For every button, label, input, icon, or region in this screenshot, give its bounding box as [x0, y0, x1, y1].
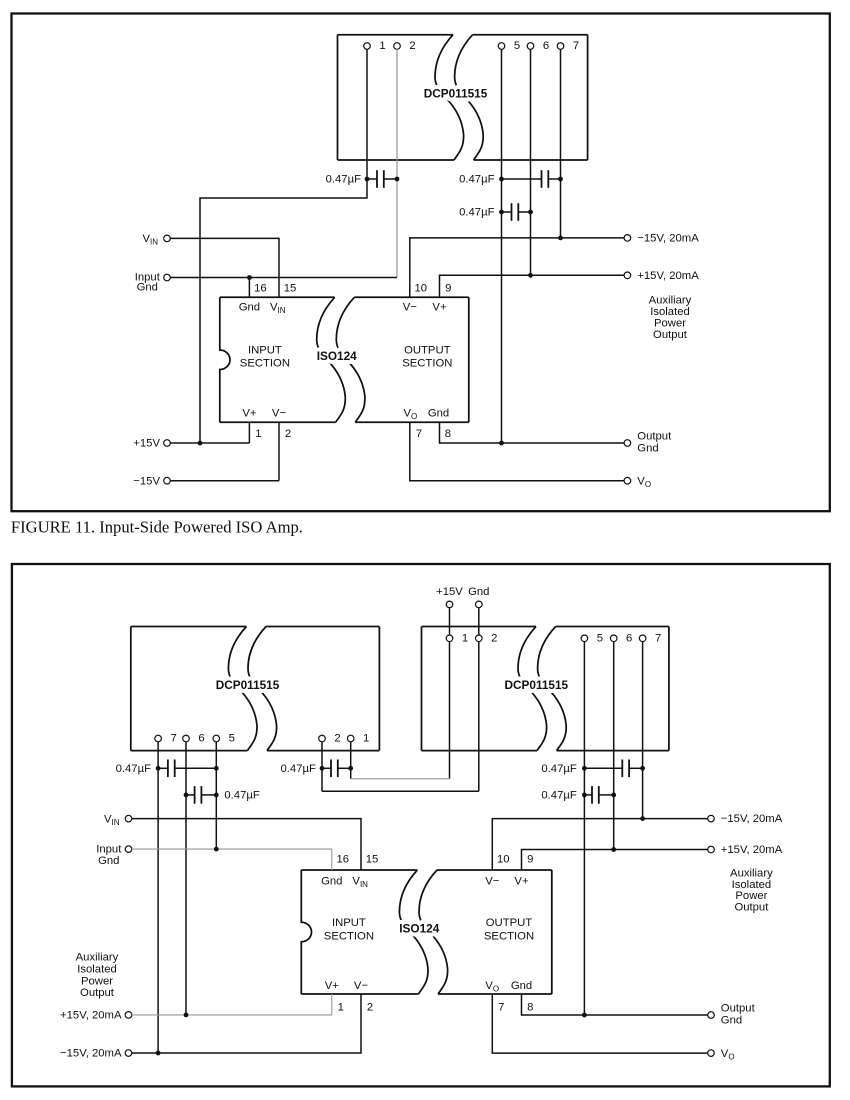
svg-text:1: 1	[379, 40, 385, 52]
svg-text:+15V, 20mA: +15V, 20mA	[637, 270, 699, 282]
svg-text:5: 5	[597, 632, 603, 644]
svg-text:SECTION: SECTION	[324, 931, 374, 943]
svg-text:2: 2	[367, 1002, 373, 1014]
svg-text:0.47µF: 0.47µF	[541, 790, 576, 802]
svg-text:Gnd: Gnd	[321, 875, 342, 887]
svg-text:1: 1	[338, 1002, 344, 1014]
svg-text:Output: Output	[80, 987, 115, 999]
svg-text:Isolated: Isolated	[650, 306, 690, 318]
svg-text:−15V, 20mA: −15V, 20mA	[637, 232, 699, 244]
svg-text:Auxiliary: Auxiliary	[76, 951, 119, 963]
svg-text:−15V, 20mA: −15V, 20mA	[721, 813, 783, 825]
svg-text:V−: V−	[485, 875, 500, 887]
svg-text:Auxiliary: Auxiliary	[649, 295, 692, 307]
svg-text:0.47µF: 0.47µF	[280, 763, 315, 775]
svg-text:Output: Output	[637, 431, 672, 443]
svg-text:DCP011515: DCP011515	[424, 87, 488, 101]
svg-text:2: 2	[491, 632, 497, 644]
svg-text:Auxiliary: Auxiliary	[730, 868, 773, 880]
svg-text:16: 16	[337, 853, 350, 865]
svg-text:8: 8	[445, 428, 451, 440]
svg-text:Power: Power	[81, 975, 113, 987]
svg-text:V+: V+	[432, 302, 447, 314]
svg-text:1: 1	[255, 428, 261, 440]
svg-text:Gnd: Gnd	[239, 302, 260, 314]
svg-text:2: 2	[285, 428, 291, 440]
svg-text:−15V: −15V	[133, 475, 160, 487]
svg-text:9: 9	[445, 282, 451, 294]
svg-text:15: 15	[366, 853, 379, 865]
svg-text:Gnd: Gnd	[511, 980, 532, 992]
svg-text:ISO124: ISO124	[399, 922, 439, 936]
svg-text:−15V, 20mA: −15V, 20mA	[60, 1048, 122, 1060]
svg-text:16: 16	[254, 282, 267, 294]
svg-text:6: 6	[626, 632, 632, 644]
svg-text:+15V, 20mA: +15V, 20mA	[721, 844, 783, 856]
svg-text:+15V: +15V	[133, 438, 160, 450]
svg-text:5: 5	[514, 40, 520, 52]
svg-text:Gnd: Gnd	[428, 408, 449, 420]
svg-text:7: 7	[498, 1002, 504, 1014]
svg-text:V+: V+	[514, 875, 529, 887]
svg-text:V−: V−	[354, 980, 369, 992]
svg-text:7: 7	[170, 733, 176, 745]
svg-text:Power: Power	[735, 890, 767, 902]
svg-text:5: 5	[229, 733, 235, 745]
svg-text:0.47µF: 0.47µF	[326, 174, 361, 186]
svg-text:2: 2	[334, 733, 340, 745]
svg-text:2: 2	[409, 40, 415, 52]
svg-text:Gnd: Gnd	[637, 443, 658, 455]
svg-text:10: 10	[497, 853, 510, 865]
svg-text:Output: Output	[734, 901, 769, 913]
svg-text:DCP011515: DCP011515	[216, 678, 280, 692]
svg-text:OUTPUT: OUTPUT	[404, 345, 451, 357]
svg-text:DCP011515: DCP011515	[504, 678, 568, 692]
svg-text:ISO124: ISO124	[317, 349, 357, 363]
svg-text:Gnd: Gnd	[137, 281, 158, 293]
svg-text:7: 7	[655, 632, 661, 644]
svg-text:15: 15	[284, 282, 297, 294]
svg-text:Output: Output	[721, 1003, 756, 1015]
svg-text:6: 6	[198, 733, 204, 745]
svg-text:INPUT: INPUT	[332, 917, 366, 929]
svg-text:0.47µF: 0.47µF	[224, 790, 259, 802]
svg-text:+15V, 20mA: +15V, 20mA	[60, 1010, 122, 1022]
svg-text:V−: V−	[272, 408, 287, 420]
svg-text:V+: V+	[325, 980, 340, 992]
svg-text:1: 1	[462, 632, 468, 644]
svg-text:FIGURE 11. Input-Side Powered: FIGURE 11. Input-Side Powered ISO Amp.	[11, 518, 303, 537]
svg-text:Gnd: Gnd	[98, 855, 119, 867]
svg-text:Gnd: Gnd	[468, 586, 489, 598]
svg-text:7: 7	[573, 40, 579, 52]
svg-text:6: 6	[543, 40, 549, 52]
svg-text:9: 9	[527, 853, 533, 865]
svg-text:Gnd: Gnd	[721, 1015, 742, 1027]
svg-text:0.47µF: 0.47µF	[459, 174, 494, 186]
svg-text:0.47µF: 0.47µF	[459, 207, 494, 219]
svg-text:+15V: +15V	[436, 586, 463, 598]
svg-text:7: 7	[416, 428, 422, 440]
svg-text:0.47µF: 0.47µF	[116, 763, 151, 775]
svg-text:SECTION: SECTION	[484, 931, 534, 943]
svg-text:Power: Power	[654, 318, 686, 330]
svg-text:OUTPUT: OUTPUT	[486, 917, 533, 929]
svg-text:Isolated: Isolated	[77, 963, 117, 975]
svg-text:SECTION: SECTION	[402, 358, 452, 370]
svg-text:0.47µF: 0.47µF	[541, 763, 576, 775]
svg-text:Input: Input	[96, 844, 122, 856]
svg-text:1: 1	[363, 733, 369, 745]
svg-text:Output: Output	[653, 329, 688, 341]
svg-text:INPUT: INPUT	[248, 345, 282, 357]
svg-text:V−: V−	[403, 302, 418, 314]
svg-text:V+: V+	[242, 408, 257, 420]
svg-text:10: 10	[415, 282, 428, 294]
svg-text:SECTION: SECTION	[240, 358, 290, 370]
svg-text:8: 8	[527, 1002, 533, 1014]
